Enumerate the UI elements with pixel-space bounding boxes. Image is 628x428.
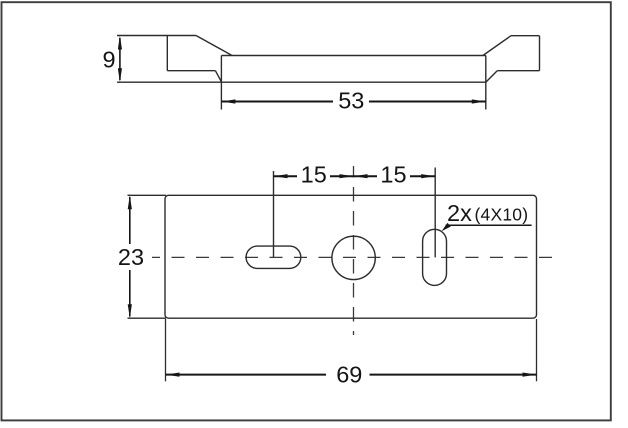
wire: right lower bend diagonal — [486, 71, 497, 83]
wire: left wing bottom edge — [167, 70, 215, 72]
svg-text:69: 69 — [336, 362, 362, 388]
dimension 69 arrow left — [166, 373, 180, 377]
vertical centerline — [353, 166, 355, 335]
dimension 15 right arrow left — [354, 174, 368, 178]
wire: right upper bend diagonal — [483, 36, 511, 56]
dimension 69 arrow right — [523, 373, 537, 377]
wire: left lower bend diagonal — [215, 71, 221, 83]
dimension 15 left line — [274, 175, 354, 177]
dimension 53 arrow right — [472, 99, 486, 103]
dimension 15 left arrow left — [274, 174, 288, 178]
svg-text:(4X10): (4X10) — [475, 205, 529, 225]
dimension 15 right line — [354, 175, 436, 177]
dimension 9 arrow down — [118, 68, 122, 82]
plate outline — [165, 195, 537, 318]
wire: right wing bottom edge — [497, 70, 539, 72]
dimension 23 line — [129, 197, 131, 317]
dimension 69 extension right — [536, 319, 538, 381]
svg-text:15: 15 — [301, 161, 327, 187]
right slot — [423, 229, 447, 285]
dimension 23 extension top — [128, 194, 167, 196]
wire: bar top edge — [221, 55, 485, 57]
wire: right wing right edge — [539, 36, 541, 71]
dimension 23 extension bottom — [128, 317, 167, 319]
label 2x (4X10) leader arrow — [442, 223, 451, 231]
dimension 23 text — [118, 246, 145, 268]
dimension 15 left text — [300, 166, 327, 183]
dimension 9 line — [119, 38, 121, 80]
wire: bar right edge + extension for dim 53 — [485, 56, 487, 110]
left slot — [246, 246, 301, 268]
dimension 15 right text — [380, 166, 407, 183]
wire: part bottom edge + left extension for dim 9 — [117, 81, 486, 83]
wire: right wing top edge — [511, 35, 540, 37]
dimension 23 arrow up — [128, 196, 132, 210]
svg-text:2x: 2x — [447, 200, 472, 226]
svg-text:9: 9 — [102, 47, 115, 73]
dimension 53 line — [221, 101, 485, 103]
center hole circle — [332, 236, 375, 279]
dimension 9 arrow up — [118, 36, 122, 50]
horizontal centerline — [152, 256, 558, 258]
dimension 9 text — [100, 48, 118, 71]
wire: left wing top edge + extension for dim 9 — [117, 35, 196, 37]
dimension 69 extension left — [165, 319, 167, 381]
svg-text:15: 15 — [380, 161, 406, 187]
label 2x (4X10) leader underline — [446, 224, 532, 226]
left slot center extension line — [273, 171, 275, 257]
dimension 15 left arrow right — [340, 174, 354, 178]
wire: left upper bend diagonal — [196, 36, 232, 56]
dimension 53 arrow left — [222, 99, 236, 103]
dimension 15 right arrow right — [421, 174, 435, 178]
right slot center extension line — [434, 168, 436, 258]
dimension 69 line — [166, 374, 537, 376]
dimension 23 arrow down — [128, 304, 132, 318]
svg-text:23: 23 — [118, 244, 144, 270]
svg-text:53: 53 — [338, 88, 364, 114]
wire: left wing left edge — [166, 36, 168, 71]
wire: bar left edge + extension for dim 53 — [220, 56, 222, 110]
